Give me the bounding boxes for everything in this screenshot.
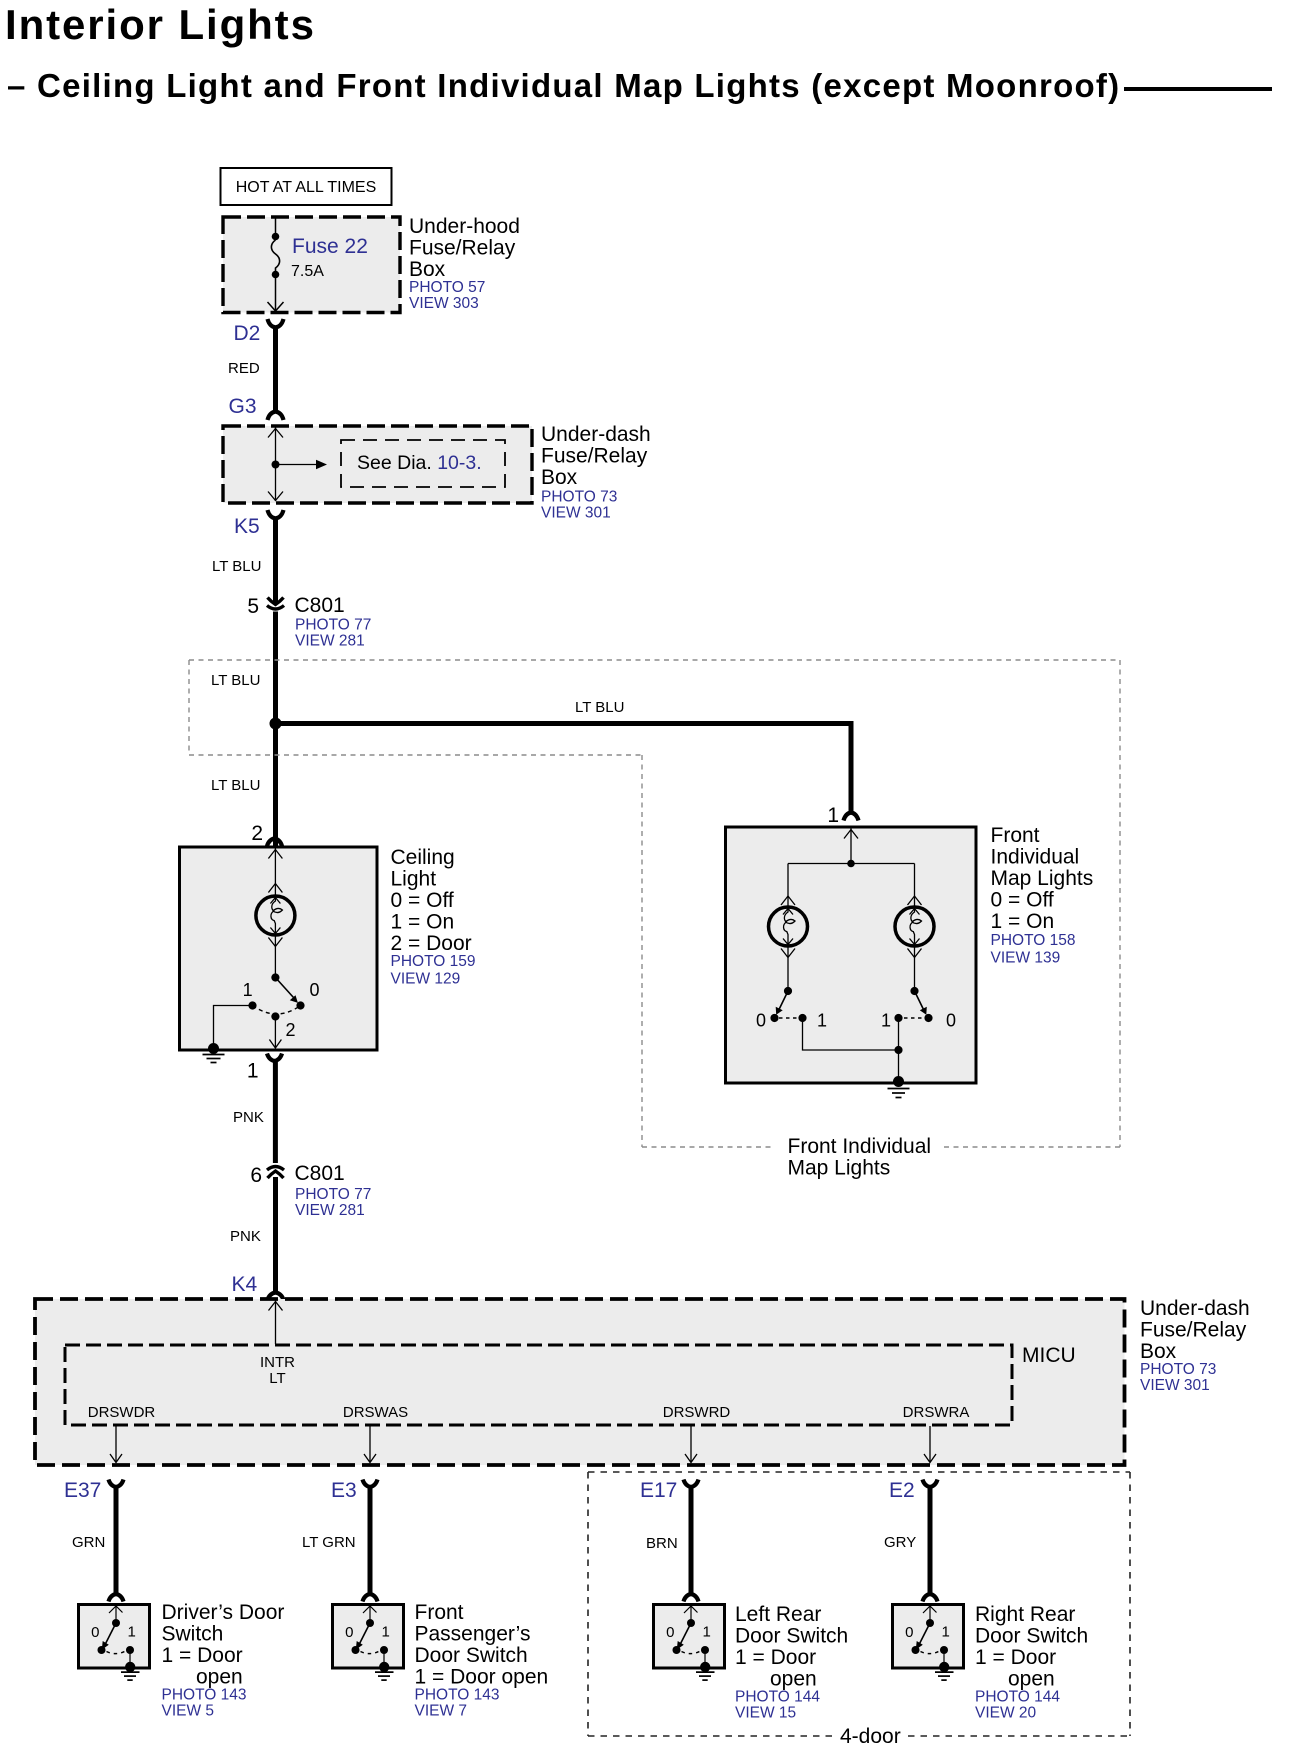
svg-text:PHOTO 144: PHOTO 144 xyxy=(735,1689,820,1706)
svg-text:1 = Door: 1 = Door xyxy=(162,1644,243,1667)
svg-text:1 = Door: 1 = Door xyxy=(975,1646,1056,1669)
svg-text:2: 2 xyxy=(251,822,263,845)
svg-text:Box: Box xyxy=(541,466,578,489)
svg-text:RED: RED xyxy=(228,360,260,377)
svg-text:PHOTO 77: PHOTO 77 xyxy=(295,1186,371,1203)
svg-text:Under-dash: Under-dash xyxy=(1140,1297,1250,1320)
svg-text:INTR: INTR xyxy=(260,1354,295,1371)
svg-text:Front: Front xyxy=(415,1601,464,1624)
svg-text:DRSWDR: DRSWDR xyxy=(88,1404,156,1421)
svg-text:LT BLU: LT BLU xyxy=(575,699,624,716)
svg-text:open: open xyxy=(1008,1668,1055,1691)
svg-text:4-door: 4-door xyxy=(840,1725,901,1748)
svg-text:Right Rear: Right Rear xyxy=(975,1603,1075,1626)
svg-text:PHOTO 159: PHOTO 159 xyxy=(391,953,476,970)
svg-text:G3: G3 xyxy=(229,395,257,418)
svg-text:LT GRN: LT GRN xyxy=(302,1534,356,1551)
svg-text:D2: D2 xyxy=(234,322,261,345)
svg-text:Ceiling: Ceiling xyxy=(391,846,455,869)
svg-text:PHOTO 143: PHOTO 143 xyxy=(162,1687,247,1704)
svg-text:PHOTO 73: PHOTO 73 xyxy=(1140,1361,1216,1378)
svg-text:Fuse/Relay: Fuse/Relay xyxy=(541,445,648,468)
svg-text:1 = Door open: 1 = Door open xyxy=(415,1666,549,1689)
svg-text:0: 0 xyxy=(946,1011,956,1031)
svg-text:Driver’s Door: Driver’s Door xyxy=(162,1601,285,1624)
svg-text:E3: E3 xyxy=(331,1479,357,1502)
svg-text:BRN: BRN xyxy=(646,1535,678,1552)
svg-text:Fuse 22: Fuse 22 xyxy=(292,235,368,258)
svg-text:LT BLU: LT BLU xyxy=(212,558,261,575)
svg-text:HOT AT ALL TIMES: HOT AT ALL TIMES xyxy=(236,179,377,196)
svg-text:Light: Light xyxy=(391,868,437,891)
svg-text:DRSWRD: DRSWRD xyxy=(663,1404,731,1421)
svg-text:E2: E2 xyxy=(889,1479,915,1502)
svg-text:VIEW 301: VIEW 301 xyxy=(1140,1377,1210,1394)
svg-text:PNK: PNK xyxy=(230,1228,261,1245)
svg-text:Door Switch: Door Switch xyxy=(735,1625,848,1648)
svg-text:Front: Front xyxy=(991,824,1040,847)
svg-text:1: 1 xyxy=(827,804,839,827)
svg-text:K4: K4 xyxy=(232,1273,258,1296)
svg-text:0 = Off: 0 = Off xyxy=(991,889,1054,912)
svg-text:PHOTO 144: PHOTO 144 xyxy=(975,1689,1060,1706)
svg-text:LT BLU: LT BLU xyxy=(211,672,260,689)
svg-text:1: 1 xyxy=(881,1011,891,1031)
svg-text:VIEW 281: VIEW 281 xyxy=(295,633,365,650)
svg-text:0 = Off: 0 = Off xyxy=(391,889,454,912)
svg-text:Map Lights: Map Lights xyxy=(788,1157,891,1180)
svg-text:Interior Lights: Interior Lights xyxy=(5,1,316,48)
svg-text:VIEW 15: VIEW 15 xyxy=(735,1705,796,1722)
svg-text:PHOTO 57: PHOTO 57 xyxy=(409,279,485,296)
svg-text:MICU: MICU xyxy=(1022,1344,1076,1367)
svg-text:C801: C801 xyxy=(295,1162,345,1185)
svg-text:GRN: GRN xyxy=(72,1534,105,1551)
svg-text:Fuse/Relay: Fuse/Relay xyxy=(409,237,516,260)
svg-text:Box: Box xyxy=(1140,1340,1177,1363)
svg-text:Front Individual: Front Individual xyxy=(788,1135,932,1158)
svg-text:Switch: Switch xyxy=(162,1623,224,1646)
svg-text:VIEW 20: VIEW 20 xyxy=(975,1705,1037,1722)
svg-text:PHOTO 77: PHOTO 77 xyxy=(295,617,371,634)
svg-text:7.5A: 7.5A xyxy=(291,263,324,280)
svg-text:VIEW 303: VIEW 303 xyxy=(409,295,479,312)
svg-text:0: 0 xyxy=(310,980,320,1000)
svg-text:VIEW 301: VIEW 301 xyxy=(541,505,611,522)
svg-text:LT: LT xyxy=(269,1370,285,1387)
svg-text:PHOTO 73: PHOTO 73 xyxy=(541,489,617,506)
svg-text:Door Switch: Door Switch xyxy=(975,1625,1088,1648)
svg-text:Fuse/Relay: Fuse/Relay xyxy=(1140,1319,1247,1342)
svg-text:open: open xyxy=(770,1668,817,1691)
svg-text:GRY: GRY xyxy=(884,1534,916,1551)
svg-text:PHOTO 158: PHOTO 158 xyxy=(991,932,1076,949)
svg-text:1: 1 xyxy=(247,1060,259,1083)
svg-text:VIEW 281: VIEW 281 xyxy=(295,1202,365,1219)
svg-text:PNK: PNK xyxy=(233,1109,264,1126)
svg-text:1: 1 xyxy=(243,980,253,1000)
svg-text:VIEW 5: VIEW 5 xyxy=(162,1703,215,1720)
svg-text:VIEW 139: VIEW 139 xyxy=(991,950,1061,967)
svg-text:E37: E37 xyxy=(64,1479,101,1502)
svg-text:PHOTO 143: PHOTO 143 xyxy=(415,1687,500,1704)
svg-text:– Ceiling Light and Front Indi: – Ceiling Light and Front Individual Map… xyxy=(7,67,1120,104)
svg-text:Individual: Individual xyxy=(991,846,1080,869)
svg-text:VIEW 7: VIEW 7 xyxy=(415,1703,468,1720)
svg-text:VIEW 129: VIEW 129 xyxy=(391,971,461,988)
svg-text:Under-dash: Under-dash xyxy=(541,423,651,446)
svg-text:K5: K5 xyxy=(234,515,260,538)
svg-text:2: 2 xyxy=(286,1020,296,1040)
svg-text:6: 6 xyxy=(250,1164,262,1187)
svg-text:Passenger’s: Passenger’s xyxy=(415,1623,531,1646)
svg-text:1 = On: 1 = On xyxy=(991,910,1055,933)
svg-text:DRSWAS: DRSWAS xyxy=(343,1404,408,1421)
svg-text:C801: C801 xyxy=(295,594,345,617)
svg-text:0: 0 xyxy=(756,1011,766,1031)
svg-text:Map Lights: Map Lights xyxy=(991,867,1094,890)
svg-text:Under-hood: Under-hood xyxy=(409,215,520,238)
svg-text:Door Switch: Door Switch xyxy=(415,1644,528,1667)
svg-text:5: 5 xyxy=(247,595,259,618)
svg-text:Box: Box xyxy=(409,258,446,281)
svg-text:1 = On: 1 = On xyxy=(391,911,455,934)
svg-text:E17: E17 xyxy=(640,1479,677,1502)
svg-text:LT BLU: LT BLU xyxy=(211,777,260,794)
svg-text:1 = Door: 1 = Door xyxy=(735,1646,816,1669)
svg-text:1: 1 xyxy=(817,1011,827,1031)
svg-text:Left Rear: Left Rear xyxy=(735,1603,821,1626)
svg-text:open: open xyxy=(196,1666,243,1689)
svg-text:2 = Door: 2 = Door xyxy=(391,932,472,955)
svg-text:DRSWRA: DRSWRA xyxy=(903,1404,970,1421)
svg-text:See Dia. 10-3.: See Dia. 10-3. xyxy=(357,452,482,474)
